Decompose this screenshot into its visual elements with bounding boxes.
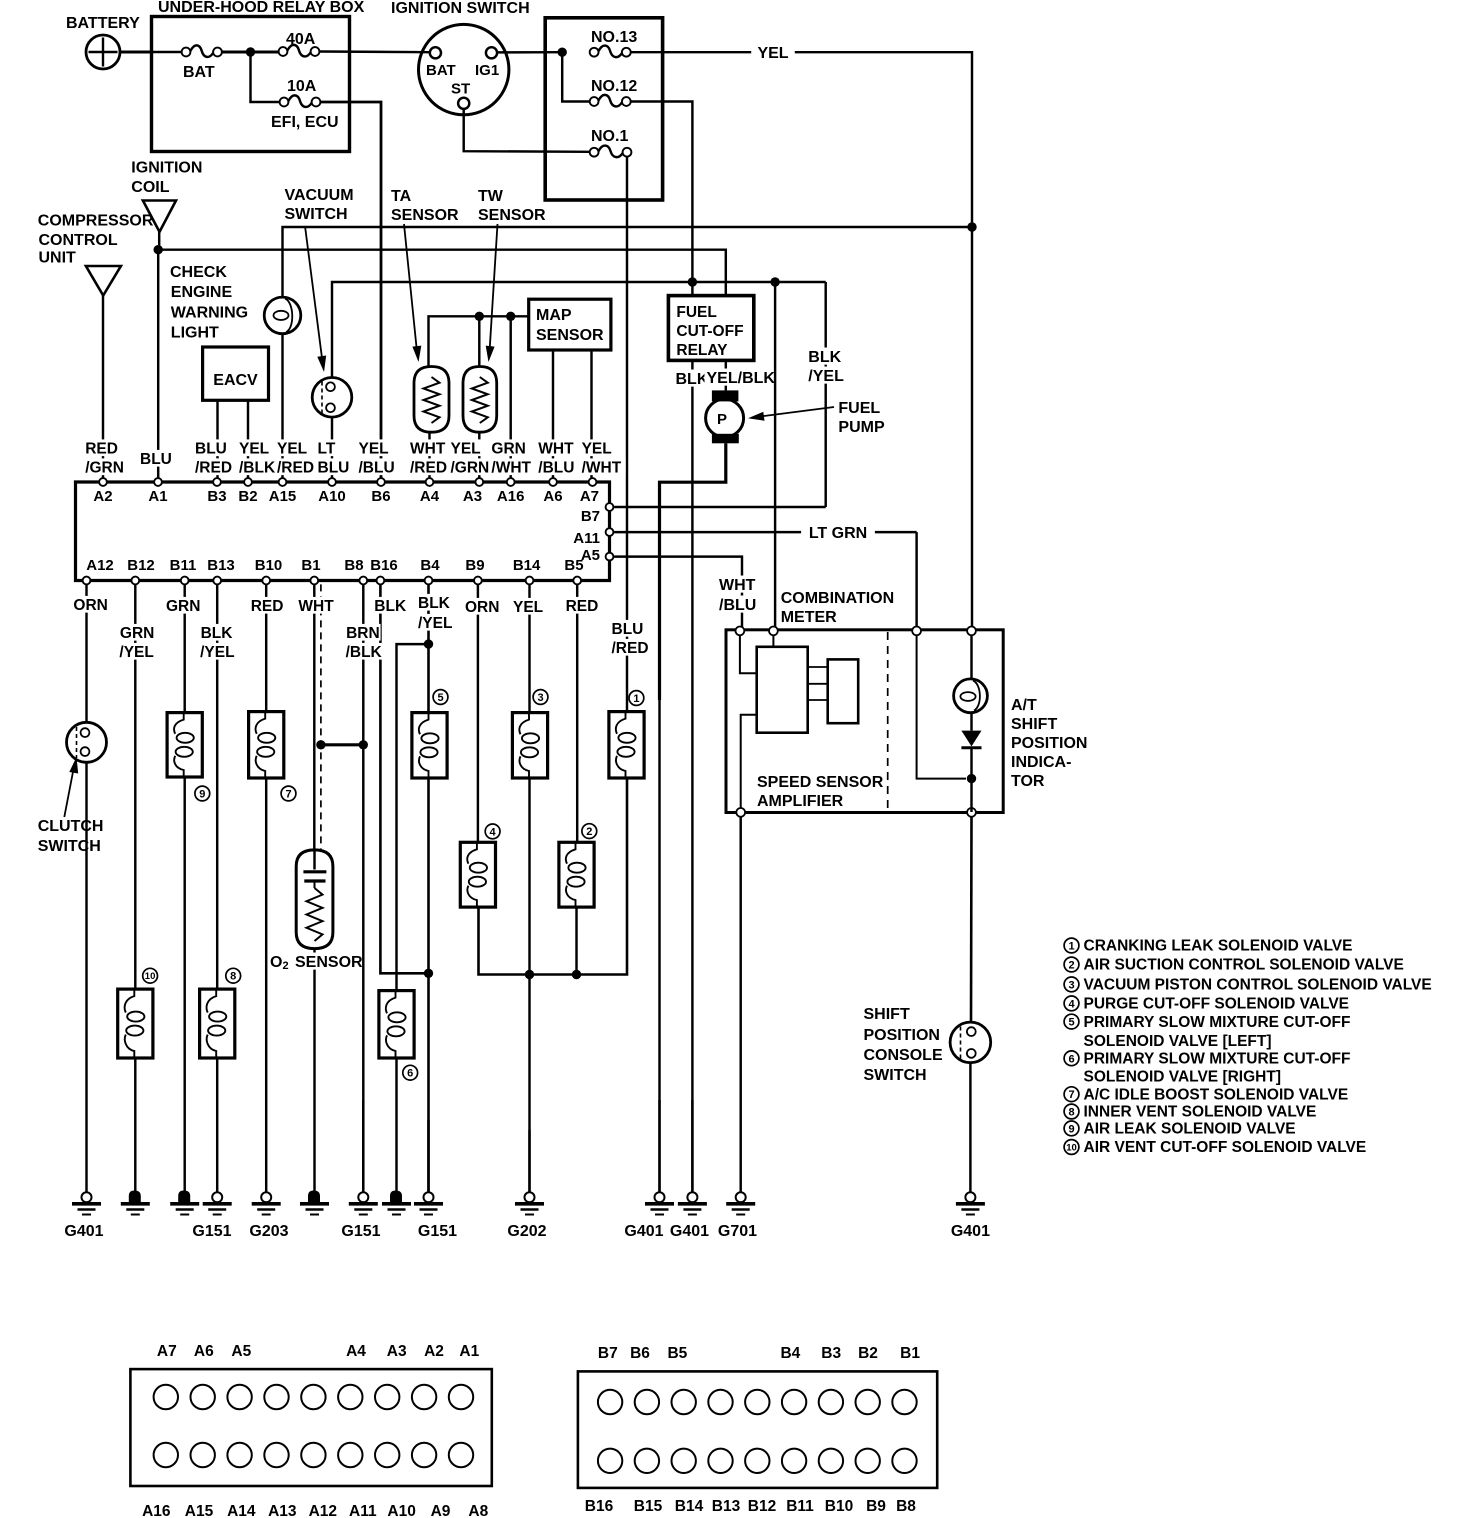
svg-text:A5: A5 bbox=[581, 547, 600, 564]
svg-text:9: 9 bbox=[199, 788, 205, 800]
wire label GRN (B11) bbox=[164, 597, 201, 614]
svg-text:B14: B14 bbox=[513, 557, 541, 574]
node junction vacuum line / combination meter feed bbox=[770, 277, 779, 286]
connector A hole bottom 8 bbox=[412, 1443, 436, 1467]
svg-text:/RED: /RED bbox=[195, 460, 232, 477]
svg-text:GRN: GRN bbox=[166, 598, 200, 615]
svg-text:/YEL: /YEL bbox=[200, 644, 234, 661]
wire label BLU bbox=[138, 450, 175, 467]
solenoid valve 9 (air leak) bbox=[167, 713, 202, 777]
connector B hole top 8 bbox=[856, 1390, 880, 1414]
svg-text:B12: B12 bbox=[748, 1498, 776, 1515]
svg-text:B4: B4 bbox=[780, 1345, 800, 1362]
wire NO.12 output down to fuel cut-off relay bbox=[631, 102, 693, 296]
svg-text:CONTROL: CONTROL bbox=[39, 232, 118, 249]
pin meter bottom left bbox=[736, 808, 745, 817]
connector A hole top 9 bbox=[449, 1385, 473, 1409]
svg-text:INNER VENT SOLENOID VALVE: INNER VENT SOLENOID VALVE bbox=[1084, 1104, 1317, 1121]
svg-text:SWITCH: SWITCH bbox=[285, 206, 348, 223]
svg-text:GRN: GRN bbox=[120, 625, 154, 642]
wire label WHT /RED bbox=[408, 439, 448, 456]
svg-text:A2: A2 bbox=[424, 1343, 444, 1360]
svg-text:P: P bbox=[717, 411, 727, 428]
svg-text:AMPLIFIER: AMPLIFIER bbox=[757, 793, 844, 810]
svg-text:CONSOLE: CONSOLE bbox=[864, 1047, 943, 1064]
svg-text:O: O bbox=[270, 954, 282, 971]
connector A hole top 7 bbox=[375, 1385, 399, 1409]
wire vacuum switch to A10 (LT BLU) bbox=[331, 417, 333, 481]
wire fuel-pump ground line bbox=[658, 1100, 660, 1193]
svg-text:BLK: BLK bbox=[418, 595, 451, 612]
svg-text:A/T: A/T bbox=[1011, 697, 1037, 714]
wire relay BLK output to ground bbox=[691, 360, 693, 1192]
svg-text:BLK: BLK bbox=[676, 371, 709, 388]
svg-text:/BLK: /BLK bbox=[346, 644, 383, 661]
svg-text:A6: A6 bbox=[543, 488, 562, 505]
svg-text:/RED: /RED bbox=[277, 460, 314, 477]
svg-text:B13: B13 bbox=[207, 557, 235, 574]
svg-text:ST: ST bbox=[451, 81, 470, 98]
svg-text:B7: B7 bbox=[598, 1345, 618, 1362]
svg-text:IG1: IG1 bbox=[475, 62, 499, 79]
wire label LT BLU bbox=[316, 439, 342, 456]
svg-text:NO.1: NO.1 bbox=[591, 128, 628, 145]
node junction shield / BRN-BLK bbox=[316, 740, 325, 749]
wire TA sensor top to MAP sensor line bbox=[429, 316, 529, 366]
svg-text:CHECK: CHECK bbox=[170, 264, 227, 281]
svg-text:BLU: BLU bbox=[318, 460, 350, 477]
svg-text:AIR SUCTION CONTROL SOLENOID V: AIR SUCTION CONTROL SOLENOID VALVE bbox=[1084, 957, 1404, 974]
diode bbox=[970, 713, 972, 731]
svg-text:A16: A16 bbox=[142, 1503, 171, 1518]
terminal BAT of ignition switch bbox=[430, 47, 441, 58]
svg-text:PRIMARY SLOW MIXTURE CUT-OFF: PRIMARY SLOW MIXTURE CUT-OFF bbox=[1084, 1014, 1351, 1031]
svg-text:G401: G401 bbox=[624, 1223, 663, 1240]
svg-text:IGNITION: IGNITION bbox=[131, 160, 202, 177]
wire amplifier to bottom-left meter pin bbox=[741, 715, 757, 808]
wire label GRN /WHT bbox=[489, 439, 526, 456]
svg-text:B10: B10 bbox=[255, 557, 283, 574]
wire O2 sensor to ground bbox=[313, 949, 315, 1193]
svg-text:RED: RED bbox=[251, 598, 284, 615]
indicator lamp bbox=[970, 635, 972, 679]
svg-text:3: 3 bbox=[1068, 979, 1074, 991]
wire label ORN (B9) bbox=[463, 598, 500, 615]
svg-text:A1: A1 bbox=[459, 1343, 479, 1360]
wire solenoid 3 output to ground G202 bbox=[528, 778, 530, 1192]
svg-text:A7: A7 bbox=[157, 1343, 177, 1360]
svg-text:BRN: BRN bbox=[346, 625, 380, 642]
svg-text:UNDER-HOOD RELAY BOX: UNDER-HOOD RELAY BOX bbox=[158, 0, 365, 16]
wire label ORN (A12) bbox=[71, 596, 108, 613]
svg-text:FUEL: FUEL bbox=[676, 304, 716, 321]
wire TW sensor top bbox=[478, 316, 480, 366]
svg-text:B16: B16 bbox=[585, 1498, 614, 1515]
connector A hole bottom 1 bbox=[154, 1443, 178, 1467]
svg-text:B1: B1 bbox=[900, 1345, 920, 1362]
svg-text:A5: A5 bbox=[231, 1343, 251, 1360]
wire label GRN/YEL (B12) bbox=[118, 624, 154, 641]
wire A11 to LT GRN to combination meter bbox=[614, 531, 917, 533]
svg-text:SENSOR: SENSOR bbox=[478, 207, 546, 224]
pin meter speed amp bbox=[769, 627, 778, 636]
svg-text:INDICA-: INDICA- bbox=[1011, 754, 1071, 771]
svg-text:SPEED SENSOR: SPEED SENSOR bbox=[757, 774, 884, 791]
svg-text:ORN: ORN bbox=[73, 597, 107, 614]
svg-text:B11: B11 bbox=[786, 1498, 814, 1515]
svg-text:B9: B9 bbox=[465, 557, 484, 574]
svg-text:/WHT: /WHT bbox=[491, 460, 531, 477]
svg-text:B7: B7 bbox=[581, 508, 600, 525]
svg-text:B2: B2 bbox=[858, 1345, 878, 1362]
wire vacuum switch up to fuel cut-off relay line bbox=[332, 282, 826, 378]
wire solenoid 4 output to bus bbox=[479, 778, 628, 975]
svg-text:SHIFT: SHIFT bbox=[864, 1006, 910, 1023]
node junction A16 feed bbox=[506, 312, 515, 321]
svg-text:EFI, ECU: EFI, ECU bbox=[271, 114, 339, 131]
wire NO.1 output down to solenoid 1 (BLU/RED) bbox=[626, 157, 628, 712]
vacuum switch bbox=[312, 378, 352, 418]
svg-text:8: 8 bbox=[230, 971, 236, 983]
solenoid valve 5 (primary slow mixture cut-off left) bbox=[412, 713, 447, 778]
connector B hole top 1 bbox=[598, 1390, 622, 1414]
svg-text:BLK: BLK bbox=[201, 625, 234, 642]
wire ST to fuse NO.1 bbox=[464, 109, 590, 152]
wire MAP sensor to A6 (WHT/BLU) bbox=[552, 350, 554, 481]
wire BAT fuse to 40A fuse bbox=[222, 51, 279, 54]
svg-text:2: 2 bbox=[586, 826, 592, 838]
solenoid valve 2 (air suction control) bbox=[559, 842, 594, 907]
svg-text:WHT: WHT bbox=[298, 598, 334, 615]
wire B9 ORN to solenoid 4 bbox=[477, 584, 479, 842]
svg-text:G401: G401 bbox=[951, 1223, 990, 1240]
svg-text:TOR: TOR bbox=[1011, 773, 1045, 790]
wire clutch switch to ground G401 bbox=[85, 762, 87, 1192]
svg-text:YEL: YEL bbox=[451, 441, 481, 458]
connector A hole bottom 9 bbox=[449, 1443, 473, 1467]
wire B16 BLK down and over to solenoid-5 output bbox=[380, 584, 427, 973]
svg-text:LIGHT: LIGHT bbox=[171, 325, 219, 342]
svg-text:GRN: GRN bbox=[491, 441, 525, 458]
solenoid valve 10 (air vent cut-off) bbox=[118, 989, 153, 1058]
connector A hole bottom 6 bbox=[338, 1443, 362, 1467]
connector A hole top 8 bbox=[412, 1385, 436, 1409]
connector B hole bottom 5 bbox=[745, 1449, 769, 1473]
MAP sensor box bbox=[529, 299, 611, 350]
fuse 10A bbox=[280, 98, 289, 107]
svg-text:4: 4 bbox=[1068, 998, 1075, 1010]
wire B14 YEL to solenoid 3 bbox=[528, 584, 530, 712]
connector B hole bottom 3 bbox=[672, 1449, 696, 1473]
wire label BRN/BLK (B8) bbox=[344, 624, 381, 641]
pin B10 bbox=[262, 577, 270, 585]
pin meter YEL bbox=[967, 627, 976, 636]
svg-text:B3: B3 bbox=[821, 1345, 841, 1362]
svg-text:YEL: YEL bbox=[513, 599, 543, 616]
wire horizontal ignition-coil line to fuel cut-off relay bbox=[158, 250, 726, 296]
solenoid valve 4 (purge cut-off) bbox=[460, 842, 495, 907]
connector A hole bottom 4 bbox=[264, 1443, 288, 1467]
wires between amplifier blocks bbox=[808, 666, 828, 668]
svg-text:7: 7 bbox=[1068, 1089, 1074, 1101]
battery B1 symbol bbox=[86, 35, 120, 69]
svg-text:5: 5 bbox=[437, 692, 443, 704]
svg-text:G401: G401 bbox=[64, 1223, 103, 1240]
svg-text:A12: A12 bbox=[86, 557, 114, 574]
pin A5 bbox=[606, 553, 614, 561]
svg-text:ORN: ORN bbox=[465, 599, 499, 616]
fuse BAT bbox=[182, 48, 191, 57]
speed sensor amplifier block bbox=[757, 647, 808, 733]
svg-text:A6: A6 bbox=[194, 1343, 214, 1360]
wire combination meter feed from vacuum line bbox=[774, 282, 776, 630]
svg-text:/BLK: /BLK bbox=[239, 460, 276, 477]
svg-text:SHIFT: SHIFT bbox=[1011, 716, 1057, 733]
wire solenoid 7 to ground G203 bbox=[265, 778, 267, 1193]
svg-text:FUEL: FUEL bbox=[838, 400, 880, 417]
svg-text:BLU: BLU bbox=[140, 451, 172, 468]
svg-text:B15: B15 bbox=[634, 1498, 663, 1515]
wire label BLU/RED (solenoid 1) bbox=[610, 620, 647, 637]
node junction 40A/10A feed bbox=[246, 47, 255, 56]
svg-text:A1: A1 bbox=[148, 488, 167, 505]
dashed divider inside combination meter bbox=[887, 632, 889, 811]
svg-text:G151: G151 bbox=[418, 1223, 457, 1240]
svg-text:B12: B12 bbox=[127, 557, 155, 574]
wire meter bottom right to shift position console switch bbox=[970, 817, 973, 1022]
svg-text:5: 5 bbox=[1068, 1017, 1074, 1029]
pin meter bottom right bbox=[967, 808, 976, 817]
terminal IG1 of ignition switch bbox=[486, 47, 497, 58]
wire label RED (B5) bbox=[564, 597, 601, 614]
shift position console switch bbox=[950, 1022, 991, 1063]
svg-text:B8: B8 bbox=[896, 1498, 916, 1515]
wire label RED /GRN bbox=[83, 439, 120, 456]
svg-text:10: 10 bbox=[1066, 1142, 1077, 1153]
svg-text:BAT: BAT bbox=[426, 62, 456, 79]
pin B14 bbox=[526, 577, 534, 585]
svg-text:B6: B6 bbox=[371, 488, 390, 505]
connector A hole top 3 bbox=[227, 1385, 251, 1409]
svg-text:A11: A11 bbox=[349, 1503, 377, 1518]
svg-text:A3: A3 bbox=[387, 1343, 407, 1360]
node junction on B8 line bbox=[359, 740, 368, 749]
node junction ignition coil line bbox=[154, 245, 163, 254]
pin meter LT GRN bbox=[912, 627, 921, 636]
svg-text:PURGE CUT-OFF SOLENOID VALVE: PURGE CUT-OFF SOLENOID VALVE bbox=[1084, 996, 1350, 1013]
svg-text:BLK: BLK bbox=[808, 349, 841, 366]
svg-text:TW: TW bbox=[478, 188, 504, 205]
solenoid valve 7 (A/C idle boost) bbox=[249, 712, 284, 778]
node junction solenoid 3 / bus bbox=[525, 970, 534, 979]
svg-text:G203: G203 bbox=[249, 1223, 288, 1240]
wire BLK/YEL from vacuum line down to B7 bbox=[824, 282, 826, 507]
svg-text:SENSOR: SENSOR bbox=[295, 954, 363, 971]
svg-text:G151: G151 bbox=[192, 1223, 231, 1240]
wire branch to solenoid 6 bbox=[397, 644, 429, 991]
terminal ST of ignition switch bbox=[458, 98, 469, 109]
wire solenoid 10 to ground bbox=[134, 1058, 136, 1193]
svg-text:A7: A7 bbox=[580, 488, 599, 505]
wire battery to under-hood relay box bbox=[120, 51, 152, 54]
wire label YEL /GRN bbox=[449, 439, 486, 456]
svg-text:SENSOR: SENSOR bbox=[391, 207, 459, 224]
svg-text:A15: A15 bbox=[269, 488, 297, 505]
svg-text:G202: G202 bbox=[507, 1223, 546, 1240]
wire MAP sensor to A7 (YEL/WHT) bbox=[590, 350, 592, 480]
svg-text:G151: G151 bbox=[341, 1223, 380, 1240]
node junction B4 branch to solenoid 6 bbox=[424, 639, 433, 648]
wire label BLK/YEL (B13) bbox=[199, 624, 236, 641]
wire label BLU /RED bbox=[193, 439, 230, 456]
ECU connector box bbox=[76, 482, 610, 581]
wire B5 RED to solenoid 2 bbox=[576, 584, 578, 842]
svg-text:NO.12: NO.12 bbox=[591, 78, 637, 95]
fuse 40A bbox=[279, 47, 288, 56]
wire relay YEL/BLK output to fuel pump bbox=[725, 360, 727, 390]
wire label YEL /BLU bbox=[357, 439, 394, 456]
svg-text:POSITION: POSITION bbox=[864, 1027, 940, 1044]
svg-text:A14: A14 bbox=[227, 1503, 256, 1518]
node junction solenoid 2 / bus bbox=[572, 970, 581, 979]
svg-text:B10: B10 bbox=[825, 1498, 853, 1515]
svg-text:IGNITION SWITCH: IGNITION SWITCH bbox=[391, 0, 530, 17]
solenoid valve 6 (primary slow mixture cut-off right) bbox=[379, 991, 414, 1058]
wire meter WHT/BLU pin into amplifier bbox=[740, 635, 757, 673]
fuel cut-off relay box bbox=[668, 296, 753, 361]
svg-text:SOLENOID VALVE [LEFT]: SOLENOID VALVE [LEFT] bbox=[1084, 1033, 1272, 1050]
svg-text:B4: B4 bbox=[420, 557, 440, 574]
ignition coil symbol bbox=[143, 201, 176, 232]
label WHT/BLU wire bbox=[717, 576, 759, 593]
wire junction down to 10A fuse bbox=[251, 52, 280, 102]
pin A2 bbox=[99, 478, 107, 486]
wire label YEL /BLK bbox=[237, 439, 274, 456]
label YEL/BLK wire bbox=[705, 369, 782, 386]
svg-text:YEL: YEL bbox=[239, 441, 269, 458]
connector B hole bottom 4 bbox=[708, 1449, 732, 1473]
pin A11 bbox=[606, 528, 614, 536]
solenoid valve 1 (cranking leak) bbox=[609, 712, 644, 778]
connector B hole top 4 bbox=[708, 1390, 732, 1414]
pin A6 bbox=[549, 478, 557, 486]
speed sensor amplifier small block bbox=[828, 659, 859, 723]
svg-text:METER: METER bbox=[781, 609, 837, 626]
svg-text:WHT: WHT bbox=[410, 441, 446, 458]
label O2 SENSOR bbox=[268, 953, 283, 970]
svg-text:VACUUM PISTON CONTROL SOLENOID: VACUUM PISTON CONTROL SOLENOID VALVE bbox=[1084, 977, 1432, 994]
wire label YEL /RED bbox=[275, 439, 312, 456]
wire solenoid 8 to ground G151 bbox=[216, 1058, 218, 1193]
svg-text:TA: TA bbox=[391, 188, 412, 205]
check engine warning light bulb bbox=[264, 297, 301, 334]
connector B hole bottom 2 bbox=[635, 1449, 659, 1473]
wire B11 GRN to solenoid 9 bbox=[183, 584, 185, 712]
wire 40A fuse output to ignition switch BAT bbox=[319, 50, 430, 53]
pin B9 bbox=[474, 577, 482, 585]
pin A15 bbox=[279, 478, 287, 486]
connector B hole bottom 1 bbox=[598, 1449, 622, 1473]
pin A10 bbox=[328, 478, 336, 486]
wire A16 (GRN/WHT) up to MAP line bbox=[509, 316, 511, 481]
svg-text:B14: B14 bbox=[675, 1498, 704, 1515]
ignition switch bbox=[419, 24, 509, 114]
svg-text:B13: B13 bbox=[712, 1498, 741, 1515]
fuel pump bbox=[712, 390, 739, 401]
pin B7 bbox=[606, 503, 614, 511]
wire shield junction to B8 line bbox=[321, 743, 363, 746]
svg-text:A4: A4 bbox=[420, 488, 440, 505]
svg-text:B5: B5 bbox=[667, 1345, 687, 1362]
svg-text:WHT: WHT bbox=[719, 577, 756, 594]
svg-text:BLK: BLK bbox=[374, 598, 407, 615]
combination meter box bbox=[726, 630, 1003, 813]
svg-text:YEL: YEL bbox=[359, 441, 389, 458]
wire A5 to WHT/BLU combination meter bbox=[614, 557, 742, 630]
wire solenoid 5 output to ground G151 bbox=[427, 778, 430, 1192]
connector block B bbox=[578, 1371, 937, 1488]
arrow from VACUUM SWITCH label to vacuum switch bbox=[305, 226, 323, 362]
svg-text:LT: LT bbox=[318, 441, 336, 458]
dashed shield wire to O2 sensor bbox=[320, 584, 322, 850]
svg-text:/WHT: /WHT bbox=[582, 460, 622, 477]
node junction TW sensor feed bbox=[475, 312, 484, 321]
svg-text:WARNING: WARNING bbox=[171, 305, 248, 322]
connector A hole top 2 bbox=[191, 1385, 215, 1409]
svg-text:BLU: BLU bbox=[195, 441, 227, 458]
fuse NO.12 bbox=[590, 97, 599, 106]
svg-text:POSITION: POSITION bbox=[1011, 735, 1087, 752]
svg-text:/BLU: /BLU bbox=[719, 597, 756, 614]
connector A hole bottom 7 bbox=[375, 1443, 399, 1467]
wire warning light feed from YEL junction bbox=[283, 227, 973, 297]
svg-text:B6: B6 bbox=[630, 1345, 650, 1362]
svg-text:1: 1 bbox=[1068, 940, 1074, 952]
svg-text:CLUTCH: CLUTCH bbox=[38, 818, 104, 835]
svg-text:/BLU: /BLU bbox=[538, 460, 574, 477]
connector A hole bottom 5 bbox=[301, 1443, 325, 1467]
EACV box bbox=[203, 347, 269, 400]
connector B hole bottom 7 bbox=[819, 1449, 843, 1473]
svg-text:A11: A11 bbox=[573, 530, 600, 547]
arrow from TW SENSOR label to TW sensor bbox=[490, 224, 498, 352]
pin A4 bbox=[426, 478, 434, 486]
wire label WHT (B1) bbox=[296, 597, 336, 614]
pin B11 bbox=[181, 577, 189, 585]
label YEL wire bbox=[751, 41, 795, 64]
svg-text:MAP: MAP bbox=[536, 307, 572, 324]
connector B hole top 5 bbox=[745, 1390, 769, 1414]
wire solenoid 2 output to bus bbox=[575, 907, 577, 974]
solenoid valve 8 (inner vent) bbox=[200, 989, 235, 1058]
connector B hole bottom 8 bbox=[856, 1449, 880, 1473]
wire IG1 to fuse box NO.13 node bbox=[497, 51, 562, 54]
ground G401 console switch bbox=[969, 1063, 971, 1193]
svg-text:SWITCH: SWITCH bbox=[864, 1067, 927, 1084]
svg-text:RED: RED bbox=[566, 598, 599, 615]
wire junction down to NO.12 fuse bbox=[562, 52, 590, 101]
svg-text:SWITCH: SWITCH bbox=[38, 838, 101, 855]
pin B6 bbox=[377, 478, 385, 486]
wire 10A fuse to B6 (YEL/BLU) bbox=[320, 102, 381, 480]
svg-text:G701: G701 bbox=[718, 1223, 757, 1240]
svg-text:B3: B3 bbox=[207, 488, 226, 505]
wire battery feed inside relay box bbox=[152, 51, 182, 53]
svg-text:SENSOR: SENSOR bbox=[536, 327, 604, 344]
svg-text:10: 10 bbox=[145, 971, 156, 982]
wire EACV to B2 (YEL/BLK) bbox=[247, 400, 249, 481]
svg-text:BATTERY: BATTERY bbox=[66, 15, 140, 32]
